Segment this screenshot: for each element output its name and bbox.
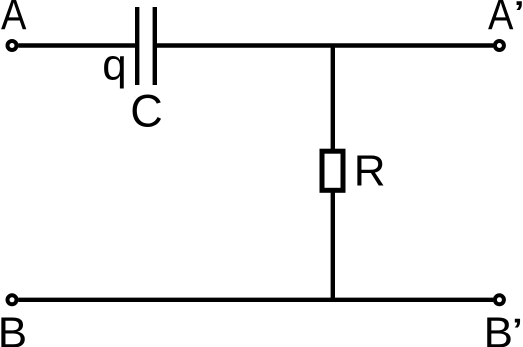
svg-text:B: B — [484, 308, 513, 347]
wire: top rail right segment (capacitor to A') — [155, 43, 493, 47]
wire: top rail left segment (A to capacitor) — [18, 43, 137, 47]
resistor R body — [322, 151, 343, 190]
svg-text:C: C — [130, 85, 163, 136]
wire: vertical from resistor down to bottom rail junction — [331, 191, 335, 300]
terminal B' — [495, 295, 504, 304]
terminal B — [8, 295, 17, 304]
terminal A' — [495, 41, 504, 50]
svg-text:’: ’ — [511, 311, 523, 347]
wire: bottom rail (B to B') — [18, 298, 493, 302]
svg-text:A: A — [488, 0, 514, 39]
capacitor C right plate — [153, 7, 157, 85]
capacitor C left plate — [135, 7, 139, 85]
svg-text:’: ’ — [513, 0, 523, 37]
terminal A — [8, 41, 17, 50]
wire: vertical from top rail junction down to resistor — [331, 46, 335, 152]
svg-text:B: B — [0, 308, 27, 347]
svg-text:q: q — [102, 41, 126, 90]
svg-text:A: A — [1, 0, 27, 39]
svg-text:R: R — [354, 147, 386, 196]
